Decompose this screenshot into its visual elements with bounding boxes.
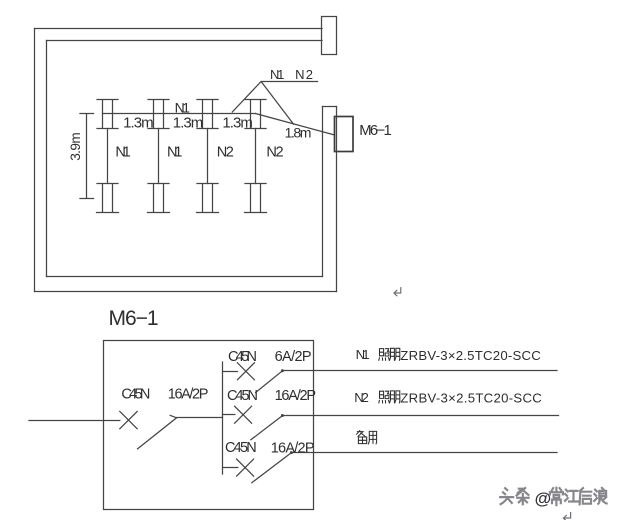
breaker QF3 blade	[252, 453, 292, 483]
lamp L4	[245, 100, 267, 213]
watermark 后	[580, 488, 592, 504]
svg-text:1.3m: 1.3m	[123, 114, 154, 131]
paragraph mark (bottom)	[563, 513, 570, 520]
dimension 3.9m line	[80, 114, 94, 199]
svg-text:6A/2P: 6A/2P	[275, 349, 312, 365]
watermark 条	[517, 488, 529, 504]
svg-text:1.3m: 1.3m	[222, 114, 253, 131]
svg-text:ZRBV-3×2.5TC20-SCC: ZRBV-3×2.5TC20-SCC	[400, 348, 541, 363]
svg-text:C45N: C45N	[225, 440, 257, 456]
wire inner wall top	[47, 40, 323, 42]
enclosure box	[104, 341, 314, 510]
svg-text:N1: N1	[115, 144, 130, 160]
wire feeder to panel	[256, 114, 335, 136]
svg-text:@: @	[535, 489, 552, 508]
svg-text:M6−1: M6−1	[109, 307, 159, 330]
wire outer wall bottom	[35, 291, 337, 293]
lamp L3	[197, 100, 219, 213]
breaker QF1 contact X	[237, 363, 254, 380]
breaker QF0 blade	[138, 415, 177, 449]
svg-text:16A/2P: 16A/2P	[168, 386, 209, 402]
svg-text:N2: N2	[266, 144, 283, 160]
paragraph mark	[394, 288, 401, 296]
svg-text:N2: N2	[295, 67, 313, 82]
watermark 常	[550, 488, 563, 505]
node branch 2 junction	[281, 414, 284, 417]
wire outer wall top	[35, 28, 323, 30]
wire incoming feed	[29, 420, 120, 422]
wire branch 2 stub	[223, 414, 235, 416]
lamp L1	[97, 100, 119, 213]
label 照明 (circuit N2)	[379, 391, 400, 403]
wire callout leader N1 N2	[232, 82, 317, 125]
svg-text:3.9m: 3.9m	[68, 132, 83, 161]
breaker QF2 contact X	[235, 406, 252, 423]
wire wall opening cap	[323, 106, 337, 108]
bus riser	[222, 362, 224, 474]
wire circuit N2 out	[283, 415, 559, 417]
wire outer wall left	[34, 29, 36, 292]
watermark 头	[500, 488, 513, 504]
svg-text:1.8m: 1.8m	[285, 124, 312, 140]
wire lamp run	[103, 113, 256, 115]
wire circuit spare out	[292, 452, 557, 454]
svg-text:C45N: C45N	[228, 349, 257, 365]
lamp L2	[148, 100, 170, 213]
wire branch 1 stub	[223, 371, 238, 373]
wire inner wall right	[322, 107, 324, 277]
label 备用 (spare circuit)	[357, 431, 377, 444]
svg-text:C45N: C45N	[121, 386, 150, 402]
breaker QF3 contact X	[237, 459, 254, 476]
svg-text:16A/2P: 16A/2P	[271, 440, 315, 456]
watermark 头条@常江后浪	[500, 488, 606, 508]
svg-text:ZRBV-3×2.5TC20-SCC: ZRBV-3×2.5TC20-SCC	[400, 391, 542, 406]
watermark 浪	[594, 488, 606, 504]
wall pier	[322, 17, 337, 55]
label 照明 (circuit N1)	[379, 348, 400, 360]
breaker QF1 blade	[256, 371, 283, 393]
node branch 1 junction	[281, 369, 284, 372]
svg-text:M6−1: M6−1	[359, 123, 392, 139]
wire branch 3 stub	[223, 467, 238, 469]
svg-text:N1: N1	[167, 144, 182, 160]
svg-text:N2: N2	[217, 144, 234, 160]
svg-text:N2: N2	[354, 390, 369, 405]
breaker QF0 contact X	[120, 411, 137, 428]
svg-text:N1: N1	[270, 67, 284, 82]
wire inner wall left	[46, 41, 48, 277]
wire QF0 to bus	[177, 417, 223, 419]
wire inner wall bottom	[47, 276, 323, 278]
svg-text:C45N: C45N	[227, 388, 258, 404]
distribution box M6-1 (plan)	[335, 117, 354, 152]
svg-text:1.3m: 1.3m	[173, 114, 204, 131]
svg-text:N1: N1	[356, 347, 370, 362]
svg-text:16A/2P: 16A/2P	[275, 388, 316, 404]
breaker QF2 blade	[251, 416, 283, 440]
svg-text:N1: N1	[175, 100, 191, 116]
node branch 3 junction	[290, 451, 293, 454]
wire outer wall right	[336, 107, 338, 292]
watermark 江	[565, 490, 578, 502]
wire circuit N1 out	[283, 370, 557, 372]
